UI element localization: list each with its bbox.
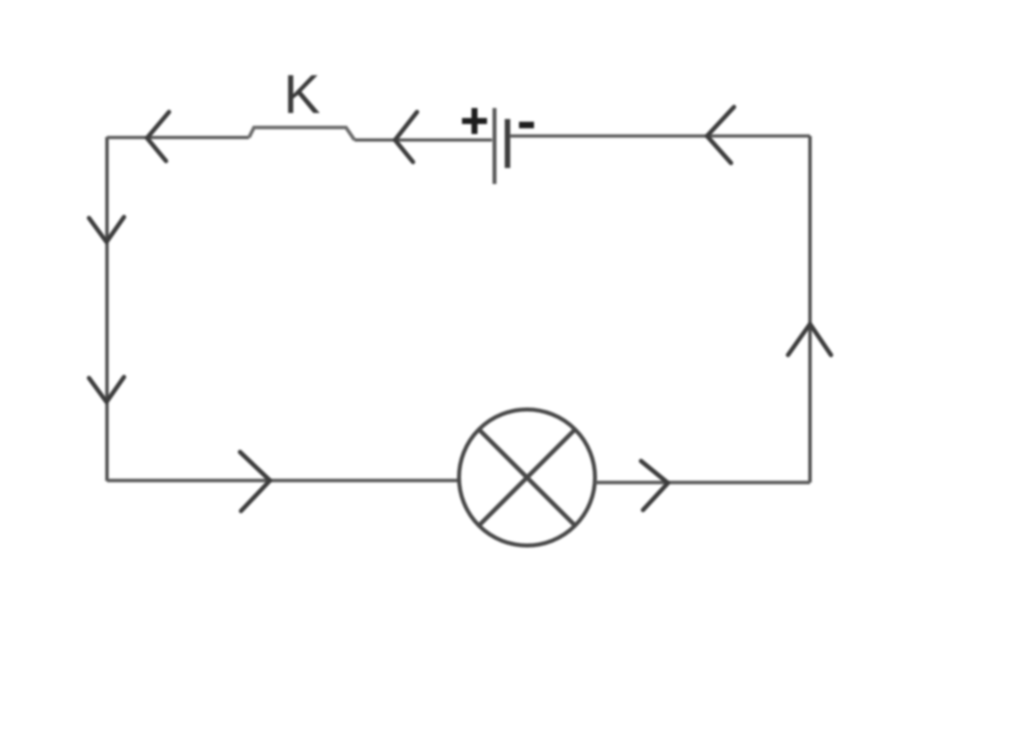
- current arrow (down) lower on left wire: [89, 377, 124, 402]
- svg-text:K: K: [284, 63, 321, 125]
- current arrow (left) on top-right wire: [707, 107, 734, 163]
- current arrow (left) on top-left wire: [147, 112, 169, 161]
- battery positive plate (long): [493, 108, 497, 184]
- wire: bottom-right segment (lamp to corner): [595, 481, 810, 485]
- wire: top-left segment (corner to switch): [107, 136, 249, 139]
- battery negative plate (short): [505, 119, 511, 168]
- wire: bottom-left segment (corner to lamp): [107, 479, 459, 483]
- current arrow (down) upper on left wire: [89, 217, 124, 242]
- current arrow (up) on right wire: [788, 324, 831, 355]
- wire: top segment battery to top-right corner: [510, 134, 811, 137]
- wire: left vertical (node A top-left corner to bottom-left corner): [105, 137, 108, 481]
- current arrow (right) after lamp: [641, 461, 668, 510]
- lamp L (circle): [459, 410, 595, 546]
- battery + label: [462, 108, 487, 134]
- current arrow (left) before battery: [395, 112, 417, 162]
- lamp L (cross X): [479, 430, 575, 526]
- current arrow (right) on bottom-left wire: [240, 452, 270, 511]
- switch K (closed switch bump): [249, 128, 355, 141]
- wire: top segment switch to battery: [355, 138, 493, 141]
- battery - label: [519, 122, 534, 129]
- wire: right vertical (top-right corner to bottom-right corner): [808, 136, 811, 483]
